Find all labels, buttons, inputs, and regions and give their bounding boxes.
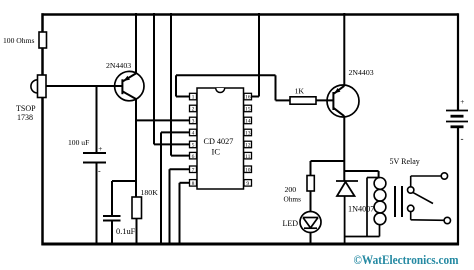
svg-text:+: + bbox=[460, 97, 464, 106]
svg-text:1738: 1738 bbox=[17, 113, 33, 122]
svg-text:2: 2 bbox=[192, 107, 195, 113]
capacitor C2 0.1uF bbox=[103, 215, 121, 217]
svg-text:-: - bbox=[461, 134, 464, 144]
svg-text:IC: IC bbox=[212, 147, 221, 157]
svg-text:Ohms: Ohms bbox=[284, 194, 302, 203]
wire pin7 to bottom rail bbox=[170, 168, 190, 170]
wire pin16 stub bbox=[252, 96, 260, 98]
svg-text:10: 10 bbox=[245, 167, 251, 173]
wire V3 rail to pin6 bbox=[170, 13, 172, 156]
svg-text:5V Relay: 5V Relay bbox=[390, 157, 420, 166]
wire pin8 to bottom rail bbox=[180, 182, 190, 184]
IC pins right 16-9 bbox=[244, 93, 252, 186]
wire V2 pin4 to bottom rail bbox=[160, 132, 162, 244]
LED D2 bbox=[300, 212, 321, 233]
IC U1 CD4027 bbox=[197, 88, 244, 189]
svg-text:+: + bbox=[98, 144, 102, 153]
wire 180K to bottom rail bbox=[136, 219, 138, 245]
wire branch down to C1 bbox=[96, 86, 98, 153]
svg-text:2N4403: 2N4403 bbox=[349, 68, 374, 77]
relay switch contacts bbox=[408, 173, 451, 224]
pin numbers right bbox=[245, 95, 251, 187]
svg-text:180K: 180K bbox=[141, 188, 159, 197]
svg-text:LED: LED bbox=[283, 219, 299, 228]
resistor R2 180K bbox=[132, 197, 142, 219]
wire 1K to Q2 base bbox=[316, 99, 334, 101]
wire R4 to LED bbox=[310, 191, 312, 212]
svg-text:6: 6 bbox=[192, 154, 195, 160]
wire 0.1uF link bbox=[112, 180, 137, 182]
relay core bars bbox=[394, 186, 396, 217]
svg-text:100 uF: 100 uF bbox=[68, 138, 89, 147]
resistor R3 1K bbox=[290, 97, 316, 104]
transistor Q2 2N4403 bbox=[327, 13, 359, 181]
diode D1 1N4007 bbox=[336, 181, 358, 244]
svg-text:1: 1 bbox=[192, 95, 195, 101]
capacitor C1 100uF bbox=[83, 152, 106, 154]
svg-text:16: 16 bbox=[245, 95, 251, 101]
svg-text:0.1uF: 0.1uF bbox=[116, 227, 136, 236]
svg-text:TSOP: TSOP bbox=[16, 104, 36, 113]
wire right border battery bottom bbox=[457, 127, 459, 245]
wire C1 to bottom rail bbox=[96, 163, 98, 245]
svg-text:5: 5 bbox=[192, 143, 195, 149]
svg-text:2N4403: 2N4403 bbox=[106, 61, 131, 70]
svg-text:CD 4027: CD 4027 bbox=[204, 137, 234, 146]
svg-text:8: 8 bbox=[192, 181, 195, 187]
svg-text:©WatElectronics.com: ©WatElectronics.com bbox=[354, 253, 459, 267]
svg-text:1N4007: 1N4007 bbox=[348, 205, 374, 214]
TSOP1738 IR receiver bbox=[31, 80, 38, 93]
wire C2 to bottom rail bbox=[111, 221, 113, 245]
wire bottom rail bbox=[42, 243, 460, 246]
svg-text:1K: 1K bbox=[295, 87, 305, 96]
wire left border bbox=[41, 13, 44, 245]
wire V1 rail to pin5 bbox=[153, 13, 155, 144]
svg-text:100 Ohms: 100 Ohms bbox=[3, 36, 34, 45]
battery B1 bbox=[446, 97, 468, 144]
wire pin3 to Q1 collector bbox=[136, 119, 190, 121]
svg-text:-: - bbox=[98, 167, 101, 176]
wire collector to LED branch bbox=[311, 160, 345, 162]
wire right border battery top bbox=[457, 13, 459, 110]
svg-text:4: 4 bbox=[192, 131, 195, 137]
svg-text:3: 3 bbox=[192, 119, 195, 125]
wire TSOP base to Q1 bbox=[46, 85, 123, 87]
wire collector to relay coil bbox=[344, 170, 378, 172]
svg-text:14: 14 bbox=[245, 119, 251, 125]
wire U pin1 to pin16 supply bbox=[176, 96, 190, 98]
svg-text:7: 7 bbox=[192, 167, 195, 173]
resistor R1 100 Ohms bbox=[39, 32, 47, 48]
svg-text:13: 13 bbox=[245, 131, 251, 137]
svg-text:11: 11 bbox=[245, 154, 251, 160]
relay coil L1 bbox=[345, 178, 386, 237]
pin numbers left bbox=[192, 95, 195, 187]
svg-text:9: 9 bbox=[246, 181, 249, 187]
resistor R4 200 Ohms bbox=[307, 176, 314, 192]
wire LED to bottom rail bbox=[310, 233, 312, 245]
wire rail drop to pin16 bbox=[258, 13, 260, 97]
wire top rail bbox=[42, 13, 459, 16]
transistor Q1 2N4403 bbox=[115, 13, 144, 197]
svg-text:12: 12 bbox=[245, 143, 251, 149]
svg-text:200: 200 bbox=[285, 185, 297, 194]
IC pins left 1-8 bbox=[190, 93, 197, 186]
svg-text:15: 15 bbox=[245, 107, 251, 113]
